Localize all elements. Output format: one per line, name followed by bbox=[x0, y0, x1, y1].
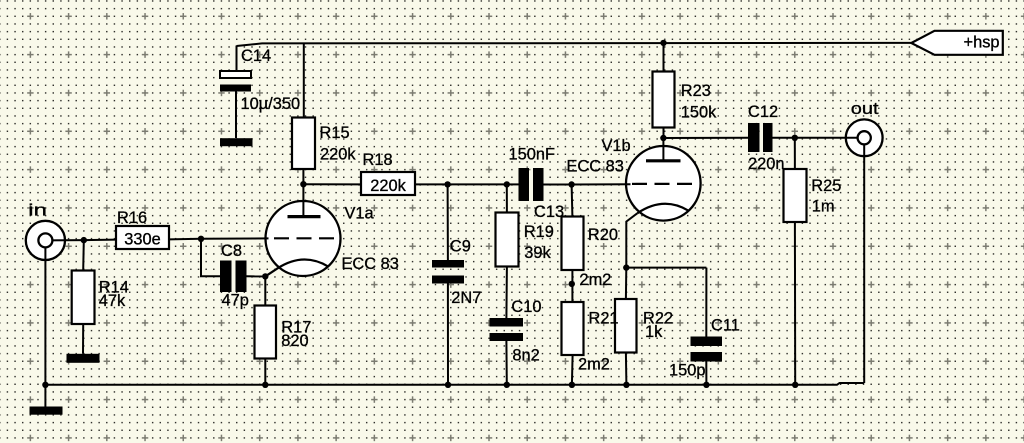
svg-text:2N7: 2N7 bbox=[451, 289, 481, 307]
V1b cathode bbox=[637, 204, 688, 214]
ground symbol (C14) bbox=[220, 138, 253, 146]
svg-text:220n: 220n bbox=[748, 155, 784, 173]
wire: in connector pin to ring bbox=[45, 240, 66, 261]
svg-text:47k: 47k bbox=[99, 292, 126, 310]
svg-text:out: out bbox=[851, 100, 879, 118]
wire: grid node down and to C8 left plate bbox=[201, 239, 220, 276]
net flag +hsp bbox=[911, 31, 1003, 55]
wire: C11 bottom plate to ground rail bbox=[705, 362, 707, 385]
wire: ground rail (bottom) bbox=[45, 383, 864, 385]
svg-text:V1a: V1a bbox=[345, 204, 375, 222]
connector "in" outer ring bbox=[26, 221, 65, 260]
resistor R18 bbox=[361, 172, 415, 195]
svg-text:47p: 47p bbox=[222, 292, 249, 310]
wire: C10 bottom plate to ground rail bbox=[505, 341, 507, 385]
wire: +hsp supply rail (top) bbox=[237, 43, 912, 46]
junction dot: V1a grid node bbox=[198, 236, 204, 242]
junction dot: V1b anode node bbox=[660, 135, 666, 141]
wire: R20 node to V1b grid bbox=[572, 183, 631, 185]
junction dot: rail/R21 bbox=[569, 382, 575, 388]
wire: R20 node down to R20 top bbox=[571, 185, 574, 217]
svg-text:R21: R21 bbox=[589, 309, 619, 327]
svg-text:820: 820 bbox=[281, 332, 308, 350]
junction dot: R14 node bbox=[81, 237, 87, 243]
svg-text:1k: 1k bbox=[645, 323, 663, 341]
junction dot: rail/C9 bbox=[445, 382, 451, 388]
junction dot: rail/C10 bbox=[504, 382, 510, 388]
capacitor C12 plates bbox=[748, 123, 760, 152]
wire: ground rail to ground symbol (bottom left) bbox=[44, 385, 46, 407]
wire: rail to R15 top bbox=[303, 43, 305, 118]
junction dot: out node bbox=[792, 135, 798, 141]
junction dot: V1b cathode node bbox=[623, 264, 629, 270]
svg-text:220k: 220k bbox=[370, 177, 406, 195]
svg-text:R25: R25 bbox=[811, 177, 841, 195]
wire: R20 bottom to R21 top bbox=[571, 270, 573, 302]
V1b anode plate bbox=[646, 159, 681, 162]
svg-text:150k: 150k bbox=[681, 103, 717, 121]
svg-text:150p: 150p bbox=[669, 361, 705, 379]
resistor R22 bbox=[615, 299, 637, 353]
svg-text:R15: R15 bbox=[320, 124, 350, 142]
resistor R15 bbox=[292, 118, 315, 170]
capacitor C14 (electrolytic) positive plate bbox=[220, 71, 251, 78]
junction dot: R20 node bbox=[568, 181, 574, 187]
V1a grid (dashed) bbox=[274, 237, 334, 239]
wire: R21 bottom to ground rail bbox=[571, 355, 574, 385]
wire: C13 right plate to R20 node bbox=[544, 184, 572, 186]
wire: R14 node down to R14 top bbox=[82, 240, 85, 270]
junction dot: R20/R21 node bbox=[569, 281, 575, 287]
svg-text:330e: 330e bbox=[124, 230, 160, 248]
svg-text:1m: 1m bbox=[812, 197, 835, 215]
junction dot: rail/in bbox=[42, 382, 48, 388]
wire: cathode node down to R22 top bbox=[625, 268, 627, 299]
V1b grid (dashed) bbox=[632, 183, 692, 185]
capacitor C10 plates bbox=[490, 318, 524, 327]
capacitor C11 plates bbox=[691, 337, 723, 347]
svg-text:10µ/350: 10µ/350 bbox=[241, 95, 301, 113]
wire: R22 bottom to ground rail bbox=[625, 353, 628, 385]
wire: anode node to R18 left bbox=[303, 183, 361, 185]
wire: V1b anode node to C12 left plate bbox=[664, 137, 749, 139]
svg-text:C11: C11 bbox=[711, 316, 740, 334]
svg-text:2m2: 2m2 bbox=[578, 355, 610, 373]
resistor R25 bbox=[784, 169, 807, 222]
svg-text:ECC 83: ECC 83 bbox=[567, 158, 624, 176]
V1a anode plate bbox=[288, 215, 321, 218]
wire: out node down to R25 top bbox=[794, 138, 796, 169]
wire: R14 bottom to ground symbol bbox=[82, 324, 84, 354]
junction dot: rail/R25 bbox=[792, 382, 798, 388]
svg-text:220k: 220k bbox=[320, 145, 356, 163]
svg-text:C14: C14 bbox=[241, 47, 271, 65]
wire: R18 right to C9 node bbox=[415, 183, 448, 185]
wire: R16 right to V1a grid bbox=[169, 238, 269, 239]
resistor R19 bbox=[496, 213, 519, 267]
svg-text:in: in bbox=[28, 201, 47, 219]
resistor R17 bbox=[255, 306, 277, 359]
wire: R19 node down to R19 top bbox=[506, 184, 508, 212]
svg-text:39k: 39k bbox=[524, 244, 551, 262]
wire: R17 bottom to ground rail bbox=[264, 359, 266, 385]
wire: C11 branch down to C11 top plate bbox=[705, 268, 707, 337]
ground symbol (R14) bbox=[67, 354, 100, 363]
wire: out connector pin to ring bbox=[845, 138, 864, 157]
junction dot: R19 node bbox=[504, 181, 510, 187]
junction dot: rail/R22 bbox=[623, 382, 629, 388]
connector "out" outer ring bbox=[846, 119, 883, 156]
wire: R23 bottom to V1b anode node bbox=[663, 128, 665, 139]
resistor R23 bbox=[653, 72, 675, 128]
wire: C8 right plate to cathode node bbox=[247, 275, 266, 277]
wire: V1b cathode lead to cathode node bbox=[626, 213, 637, 267]
svg-text:R20: R20 bbox=[588, 226, 618, 244]
svg-text:R23: R23 bbox=[681, 82, 711, 100]
wire: C12 right plate to out connector bbox=[773, 137, 859, 139]
wire: C14 negative plate to ground symbol bbox=[235, 92, 237, 139]
capacitor C14 negative plate bbox=[220, 85, 251, 92]
V1a cathode bbox=[265, 260, 328, 277]
junction dot: V1a cathode node bbox=[262, 273, 268, 279]
svg-text:150nF: 150nF bbox=[509, 145, 555, 163]
resistor R20 bbox=[562, 217, 584, 271]
svg-text:8n2: 8n2 bbox=[512, 346, 539, 364]
svg-text:C8: C8 bbox=[221, 242, 242, 260]
wire: in connector to R16 left bbox=[45, 239, 116, 242]
svg-text:R18: R18 bbox=[363, 151, 393, 169]
junction dot: V1a anode node bbox=[300, 181, 306, 187]
ground symbol (bottom left) bbox=[30, 407, 63, 415]
junction dot: rail/R23 bbox=[660, 40, 666, 46]
svg-text:V1b: V1b bbox=[602, 137, 631, 155]
wire: in connector down to ground rail bbox=[44, 240, 46, 384]
svg-text:R16: R16 bbox=[117, 209, 147, 227]
junction dot: C9 node bbox=[444, 181, 450, 187]
svg-text:ECC 83: ECC 83 bbox=[342, 255, 399, 273]
svg-text:C9: C9 bbox=[450, 238, 471, 256]
junction dot: rail/C11 bbox=[703, 382, 709, 388]
tube V1a (triode, ECC 83) envelope bbox=[266, 201, 341, 276]
wire: cathode node down to R17 top bbox=[264, 276, 266, 305]
wire: C9 bottom plate to ground rail bbox=[447, 284, 449, 385]
wire: R15 bottom to anode node bbox=[302, 169, 304, 184]
tube V1b (triode, ECC 83) envelope bbox=[626, 146, 701, 221]
connector "in" inner pin bbox=[38, 233, 52, 247]
resistor R16 bbox=[116, 226, 169, 249]
svg-text:2m2: 2m2 bbox=[580, 271, 612, 289]
wire: R19 node to C13 left plate bbox=[507, 183, 519, 185]
wire: R25 bottom to ground rail bbox=[794, 222, 796, 385]
junction dot: rail/R17 bbox=[262, 382, 268, 388]
capacitor C8 plates bbox=[220, 261, 232, 293]
wire: supply rail down to R23 top bbox=[663, 43, 665, 72]
svg-text:R19: R19 bbox=[524, 223, 554, 241]
svg-text:C12: C12 bbox=[748, 103, 778, 121]
wire: C9 node down to C9 top plate bbox=[447, 184, 449, 260]
svg-text:C13: C13 bbox=[534, 203, 564, 221]
capacitor C9 plates bbox=[432, 260, 464, 268]
wire: cathode node to C11 branch bbox=[626, 267, 706, 269]
resistor R14 bbox=[72, 271, 95, 325]
wire: rail to C14 positive plate bbox=[236, 46, 238, 72]
wire: V1a anode lead bbox=[302, 184, 304, 216]
connector "out" inner pin bbox=[858, 131, 871, 144]
svg-text:C10: C10 bbox=[511, 298, 541, 316]
wire: C9 node to R19 node bbox=[448, 183, 507, 185]
wire: out connector down to ground rail bbox=[863, 138, 865, 383]
wire: V1b anode lead bbox=[662, 138, 664, 161]
wire: R19 bottom to C10 top plate bbox=[505, 267, 508, 319]
capacitor C13 (150nF) plates bbox=[519, 168, 530, 201]
resistor R21 bbox=[562, 302, 584, 355]
svg-text:+hsp: +hsp bbox=[964, 34, 1000, 52]
